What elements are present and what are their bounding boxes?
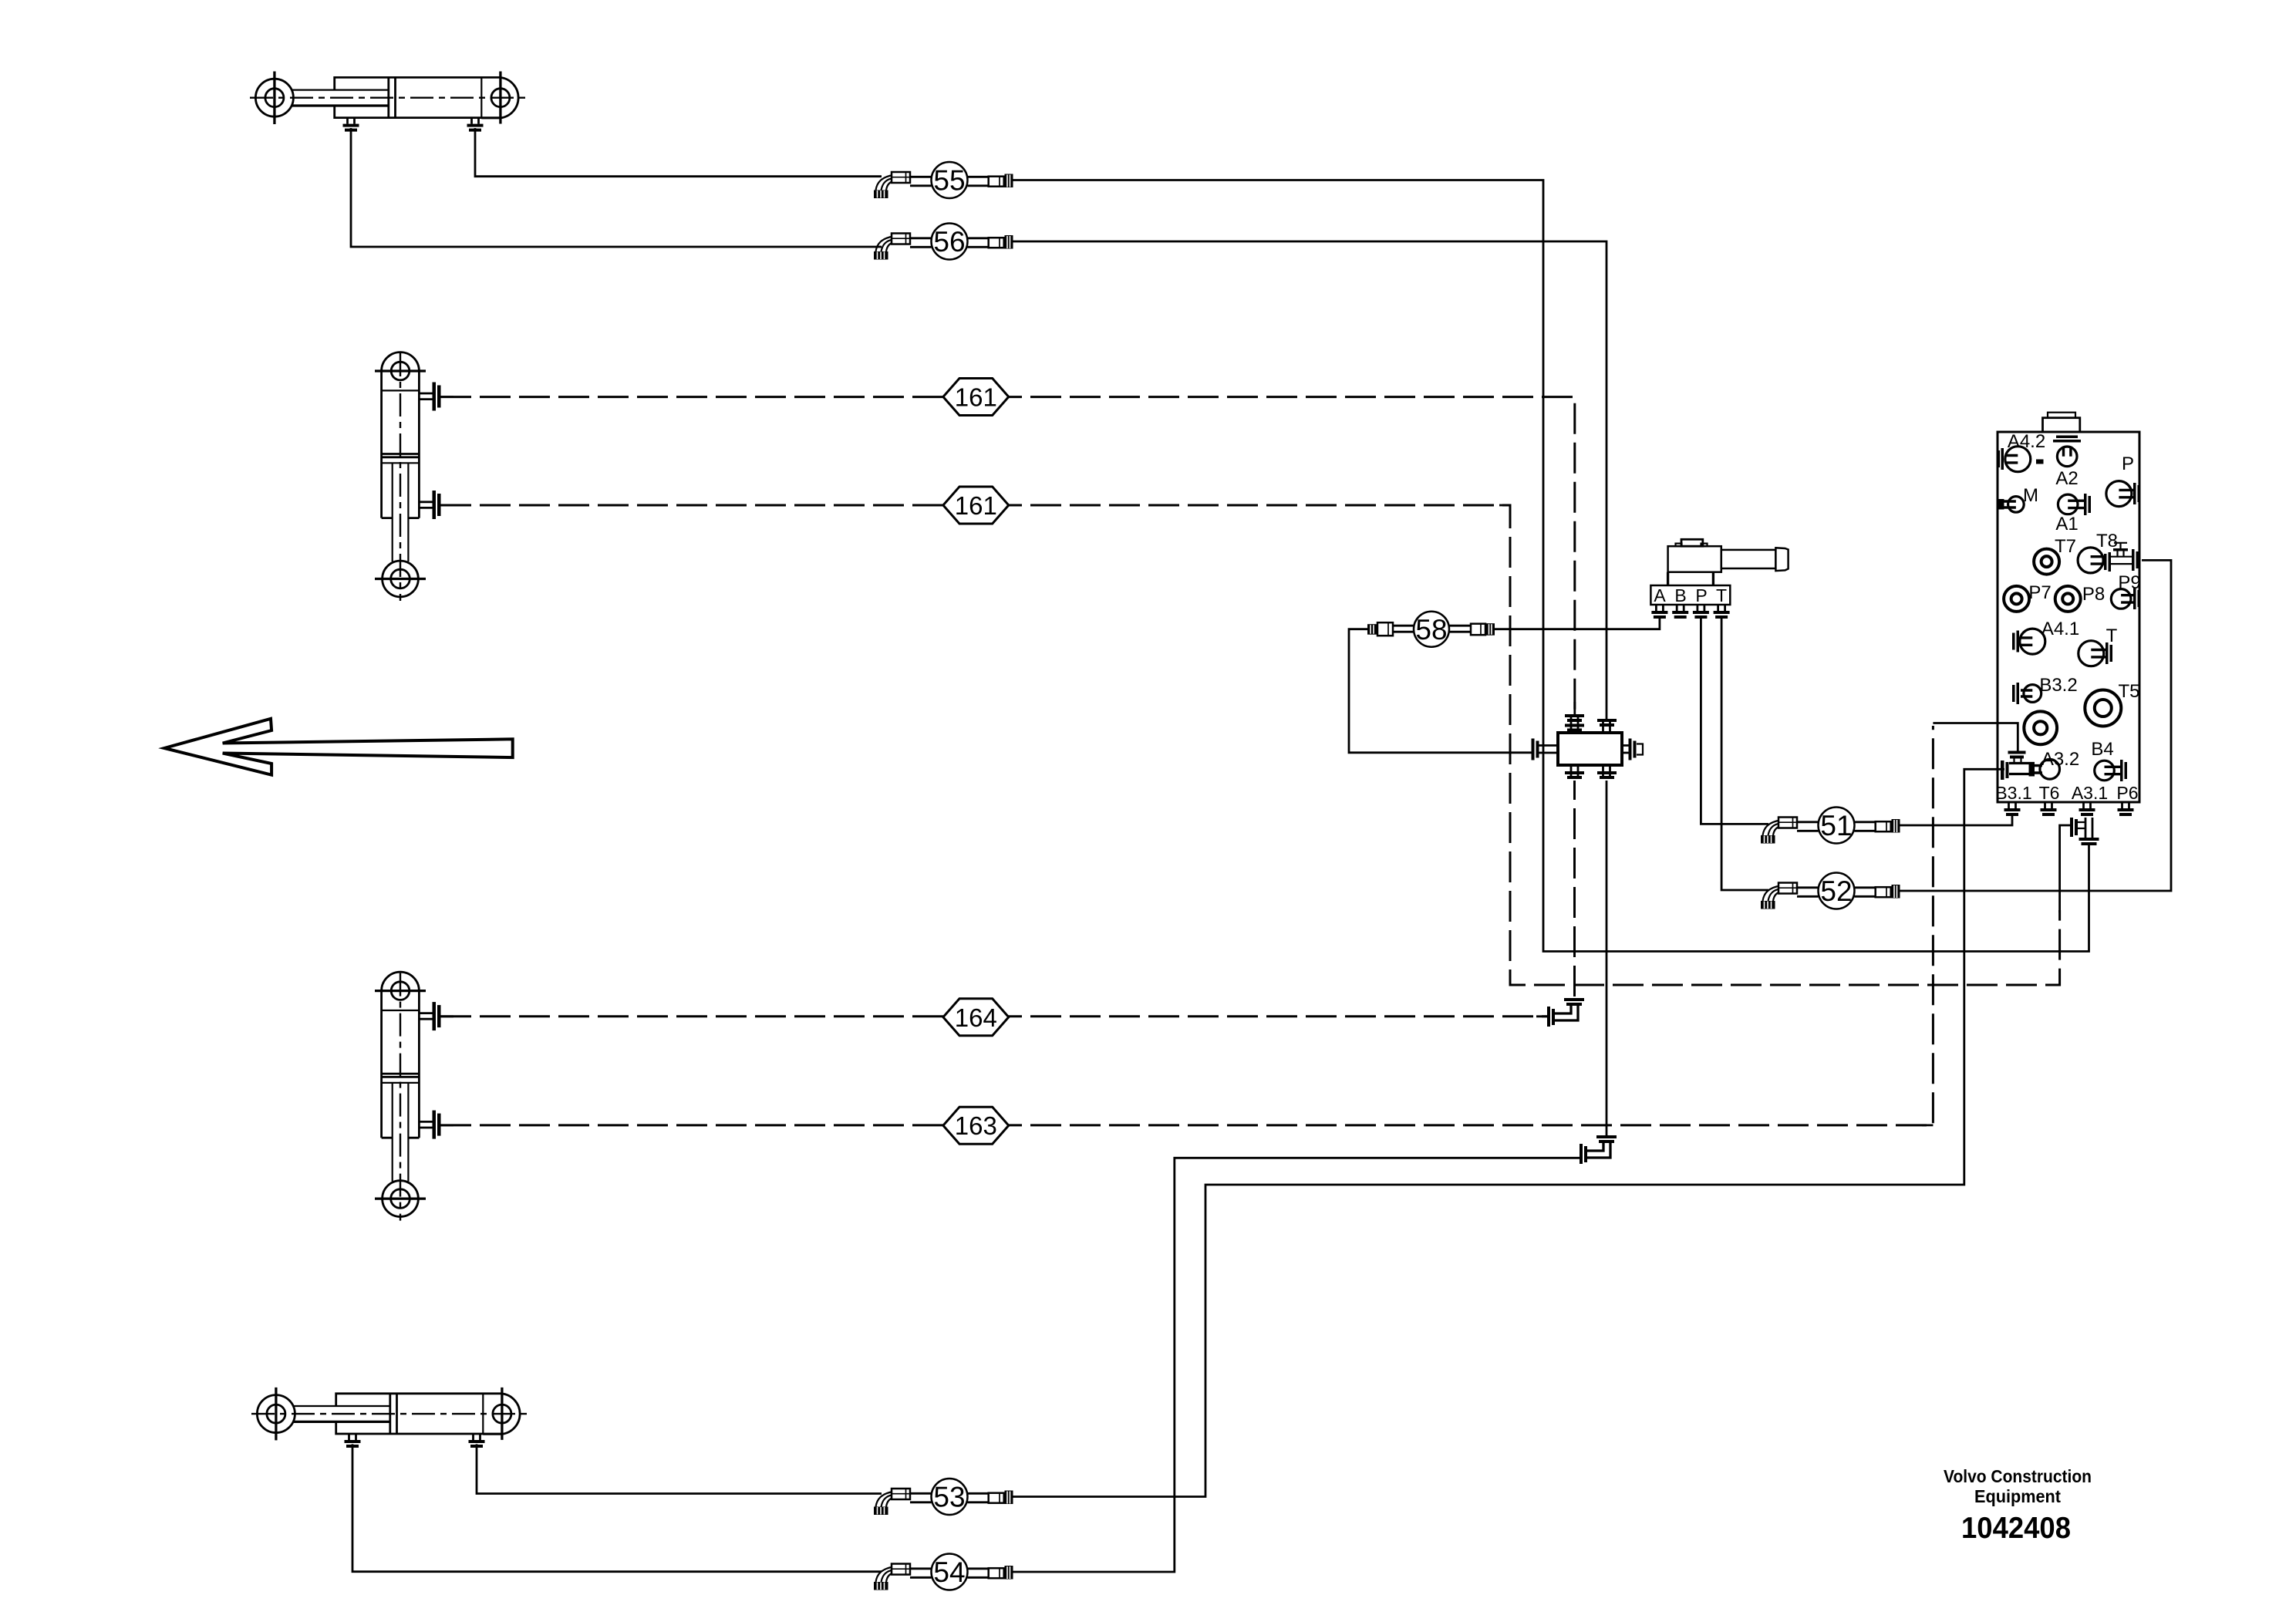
piston lines xyxy=(382,453,420,455)
pipe 163 solid tail to A3.2 tee xyxy=(1933,723,2018,752)
bottom eye bore xyxy=(391,569,410,588)
svg-text:161: 161 xyxy=(955,491,997,520)
left eye vertical crosshair xyxy=(273,72,275,125)
svg-text:T7: T7 xyxy=(2055,536,2076,557)
manifold body xyxy=(1558,733,1622,765)
svg-text:51: 51 xyxy=(1820,810,1852,841)
barrel right edge xyxy=(418,371,420,518)
upper port stems xyxy=(419,393,433,400)
port M xyxy=(2008,497,2025,513)
pipe 58 left run to manifold left port xyxy=(1349,629,1532,753)
lower port stems xyxy=(419,502,433,508)
manifold bottom-right port xyxy=(1603,765,1610,777)
hose 58 ring xyxy=(1414,612,1449,647)
port T6 fitting xyxy=(2041,802,2057,816)
svg-text:52: 52 xyxy=(1820,875,1852,907)
hose assembly 52 xyxy=(1761,873,1900,909)
svg-text:P: P xyxy=(2122,454,2134,474)
vertical centerline xyxy=(400,353,401,601)
pipe 161 upper dashed run xyxy=(440,397,1575,714)
svg-text:B3.1: B3.1 xyxy=(1995,783,2031,803)
port A3.2 with tee xyxy=(2040,760,2060,780)
port A4.1 xyxy=(2020,629,2045,654)
svg-text:A2: A2 xyxy=(2055,468,2078,489)
solenoid nozzle cap xyxy=(1775,548,1788,571)
pipe 51 right run to B3.1 xyxy=(1900,814,2012,825)
port B3.2 xyxy=(2024,685,2041,703)
hose assembly 54 xyxy=(874,1554,1013,1590)
svg-text:53: 53 xyxy=(933,1482,965,1513)
port B4 xyxy=(2095,760,2115,781)
svg-text:P: P xyxy=(1695,585,1707,605)
solenoid port A fitting xyxy=(1651,605,1667,619)
pipe 163 dashed run xyxy=(440,726,1933,1125)
pipe 54 right run to elbow xyxy=(1013,1158,1583,1572)
barrel outline xyxy=(335,77,500,117)
manifold top-right port xyxy=(1603,719,1610,733)
svg-text:161: 161 xyxy=(955,383,997,412)
solenoid port P fitting xyxy=(1693,605,1709,619)
head gland line xyxy=(382,389,420,391)
direction arrow xyxy=(164,719,513,775)
bottom eye horizontal crosshair xyxy=(375,578,426,580)
svg-text:56: 56 xyxy=(933,226,965,258)
svg-text:A3.1: A3.1 xyxy=(2072,783,2108,803)
solenoid valve V1 xyxy=(1650,539,1788,619)
hose 58 left ferrule xyxy=(1377,622,1393,636)
elbow fitting on pipe 54 riser xyxy=(1580,1135,1617,1164)
barrel left edge xyxy=(380,371,383,518)
manifold right port plug xyxy=(1622,746,1630,754)
svg-text:A4.2: A4.2 xyxy=(2008,431,2045,452)
solenoid legs xyxy=(1667,572,1669,585)
pipe 161 lower solid tail to A3.1 tee xyxy=(2060,825,2072,912)
hose 58 right ferrule xyxy=(1471,624,1485,636)
lower port bars xyxy=(433,491,437,519)
svg-text:P9: P9 xyxy=(2118,572,2140,593)
solenoid coil body xyxy=(1668,546,1721,572)
svg-text:B: B xyxy=(1674,585,1686,605)
svg-text:A4.1: A4.1 xyxy=(2041,619,2079,639)
svg-text:T: T xyxy=(2106,626,2118,646)
port A3.1 fitting xyxy=(2079,802,2095,816)
port T5 xyxy=(2085,690,2121,727)
dashed line contact stubs xyxy=(440,397,1575,714)
port T7 xyxy=(2034,549,2059,575)
svg-text:163: 163 xyxy=(955,1111,997,1140)
solenoid nozzle xyxy=(1721,550,1776,568)
cylinder 4 (bottom left horizontal cylinder) xyxy=(251,1388,531,1448)
manifold bottom-left port xyxy=(1571,765,1578,777)
hex tag 163 xyxy=(943,1107,1009,1144)
hose assembly 58 (straight) xyxy=(1367,612,1495,647)
solenoid port T fitting xyxy=(1714,605,1730,619)
manifold left port xyxy=(1538,746,1558,754)
port P9 xyxy=(2111,589,2131,609)
pipe 164 dashed run xyxy=(440,1015,1547,1017)
top eye horizontal crosshair xyxy=(375,369,426,372)
pipe 55 right run to A3.1 tee xyxy=(1013,180,2089,952)
port A4.2 xyxy=(2005,447,2031,472)
pipe 53 left run xyxy=(477,1444,882,1493)
hose 58 right tube xyxy=(1450,626,1472,632)
pipe 58 right run from solenoid port A xyxy=(1495,619,1660,629)
right eye vertical crosshair xyxy=(499,72,501,124)
hose 58 right nut xyxy=(1486,623,1495,636)
plug dash right of A4.2 xyxy=(2036,460,2044,464)
svg-text:B4: B4 xyxy=(2091,739,2113,760)
port T xyxy=(2079,641,2104,666)
rod-end gland plate xyxy=(480,77,482,117)
pipe 56 left run xyxy=(351,128,882,247)
pipe 54 left run xyxy=(352,1444,882,1571)
port A1 xyxy=(2058,494,2078,514)
svg-text:T: T xyxy=(1716,585,1727,605)
pipe 53 right run to A3.2 tee xyxy=(1013,769,2001,1496)
pipe 161 lower dashed run xyxy=(440,505,2060,985)
svg-text:Volvo Construction: Volvo Construction xyxy=(1944,1466,2092,1486)
unlabeled port xyxy=(2024,711,2057,744)
svg-text:55: 55 xyxy=(933,165,965,197)
svg-text:P6: P6 xyxy=(2116,783,2138,803)
hose 58 left tube xyxy=(1393,626,1414,632)
svg-text:P7: P7 xyxy=(2028,582,2051,603)
rod right edge xyxy=(407,463,409,561)
top eye bore xyxy=(391,362,410,380)
hex tag 164 xyxy=(943,999,1009,1036)
solenoid port block xyxy=(1650,585,1730,605)
right eye bore xyxy=(491,89,510,107)
hex tag 161 lower xyxy=(943,487,1009,524)
hose assembly 56 xyxy=(874,224,1013,260)
pipe 52 left run from solenoid port T xyxy=(1721,619,1768,890)
A3.1 tee fitting xyxy=(2085,818,2092,838)
pipe 52 right run to T8 xyxy=(1900,560,2171,891)
valve block U1 xyxy=(1995,413,2140,845)
pipe 54 riser elbow to manifold xyxy=(1606,781,1608,1135)
manifold block M1 xyxy=(1532,714,1644,779)
svg-text:M: M xyxy=(2023,485,2038,506)
piston xyxy=(387,77,389,117)
svg-text:T8: T8 xyxy=(2096,531,2118,551)
hex tag 161 upper xyxy=(943,379,1009,416)
upper port bars xyxy=(433,383,437,411)
left eye outer ring xyxy=(255,79,293,116)
valve block body xyxy=(1998,432,2139,802)
svg-text:T6: T6 xyxy=(2039,783,2060,803)
elbow fitting on pipe 164 xyxy=(1547,998,1584,1027)
top eye dome xyxy=(382,352,420,371)
rod left edge xyxy=(392,463,393,561)
svg-text:B3.2: B3.2 xyxy=(2039,675,2077,696)
right eye D-arc xyxy=(481,77,518,118)
solenoid port B fitting xyxy=(1672,605,1688,619)
cylinder 2 (upper left vertical cylinder) xyxy=(375,352,441,601)
bottom eye outer ring xyxy=(383,561,419,597)
cylinder port fitting right xyxy=(467,118,484,132)
svg-text:A3.2: A3.2 xyxy=(2041,749,2079,770)
pipe 164 riser to manifold xyxy=(1573,781,1576,996)
hose assembly 53 xyxy=(874,1479,1013,1515)
port T8 with tee xyxy=(2078,548,2103,573)
hose assembly 55 xyxy=(874,162,1013,198)
pipe 51 left run from solenoid port P xyxy=(1701,619,1768,824)
cylinder 1 (top left horizontal cylinder) xyxy=(250,72,529,132)
svg-text:P8: P8 xyxy=(2082,584,2105,605)
hose assembly 51 xyxy=(1761,808,1900,844)
port A2 xyxy=(2057,447,2077,467)
piston rod bottom edge xyxy=(292,104,389,106)
hose 58 left nut xyxy=(1367,624,1377,635)
pipe 56 right run to manifold xyxy=(1013,241,1607,719)
svg-text:T5: T5 xyxy=(2118,681,2139,702)
svg-text:A: A xyxy=(1654,585,1666,605)
svg-text:A1: A1 xyxy=(2055,514,2078,534)
port P8 xyxy=(2055,586,2081,612)
centerline xyxy=(250,96,529,98)
svg-text:Equipment: Equipment xyxy=(1974,1486,2061,1506)
svg-text:54: 54 xyxy=(933,1556,965,1588)
manifold top-left port xyxy=(1571,714,1578,733)
svg-text:164: 164 xyxy=(955,1003,997,1032)
svg-text:1042408: 1042408 xyxy=(1961,1512,2071,1545)
pipe 55 left run xyxy=(475,128,882,177)
port P7 xyxy=(2004,586,2029,612)
flow hexagon template xyxy=(943,379,1009,1145)
cylinder 3 (lower left vertical cylinder) xyxy=(375,972,441,1220)
pipe 163 tail inside block xyxy=(1997,723,2018,770)
solenoid top tab xyxy=(1681,539,1703,546)
piston rod top edge xyxy=(292,89,389,90)
port P xyxy=(2106,481,2132,507)
left eye bore xyxy=(265,89,284,107)
barrel bottom edge xyxy=(382,517,420,519)
svg-text:58: 58 xyxy=(1415,614,1447,646)
port P6 fitting xyxy=(2118,802,2134,816)
port B3.1 fitting xyxy=(2004,802,2021,816)
cylinder port fitting left xyxy=(343,118,359,132)
valve block top cap xyxy=(2043,418,2080,432)
